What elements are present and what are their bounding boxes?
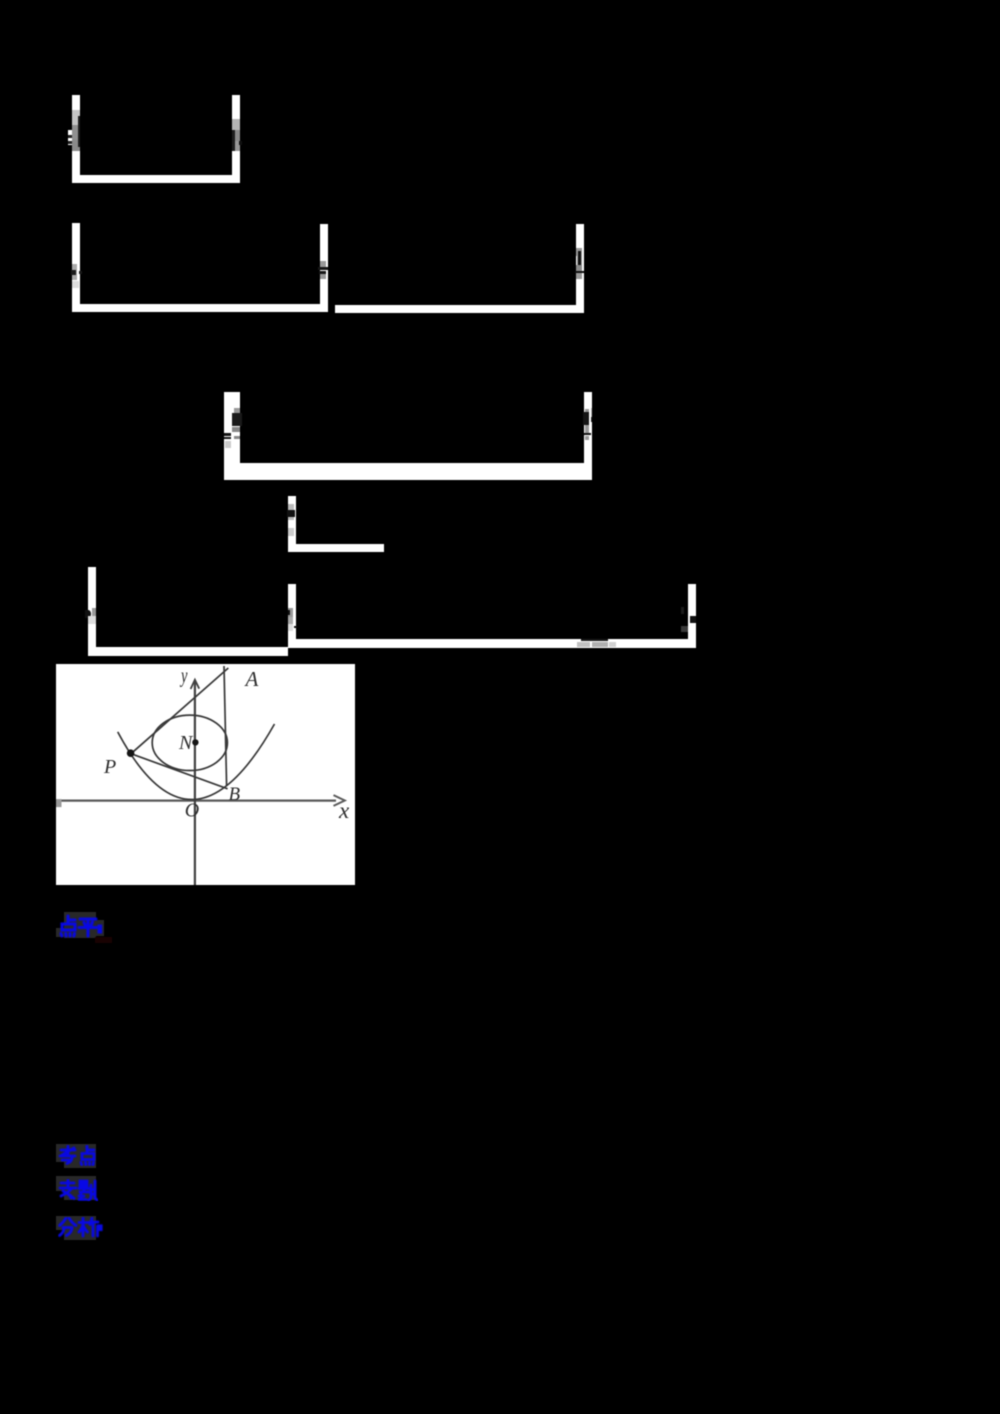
svg-text:B: B [229, 783, 241, 804]
zhuan [60, 1180, 76, 1199]
ellipse [152, 715, 227, 770]
kao [60, 1146, 75, 1164]
line AB [224, 666, 227, 786]
svg-text:N: N [178, 731, 194, 753]
svg-text:O: O [185, 799, 199, 821]
line PB [131, 753, 228, 788]
row3 right bar glyphs [585, 409, 589, 427]
row2 left box right bar glyphs [320, 261, 326, 267]
line PA [131, 668, 228, 754]
row3 left bar glyphs [234, 408, 240, 413]
row2 left bar glyphs [72, 264, 77, 280]
svg-text:P: P [103, 756, 116, 778]
x axis [62, 799, 337, 801]
ping [79, 919, 97, 936]
xi [79, 1218, 98, 1236]
parabola [118, 724, 275, 800]
svg-text:y: y [179, 664, 188, 688]
row2 right bar fraction [576, 248, 582, 256]
svg-text:A: A [244, 666, 259, 690]
fen [60, 1218, 77, 1236]
svg-text:x: x [338, 798, 350, 823]
dian [81, 1146, 94, 1165]
dian [61, 916, 75, 936]
row1 left bar glyph remnants [72, 110, 80, 125]
y axis [194, 681, 196, 885]
row1 right bar glyph remnants [232, 119, 240, 130]
ti [79, 1181, 98, 1201]
